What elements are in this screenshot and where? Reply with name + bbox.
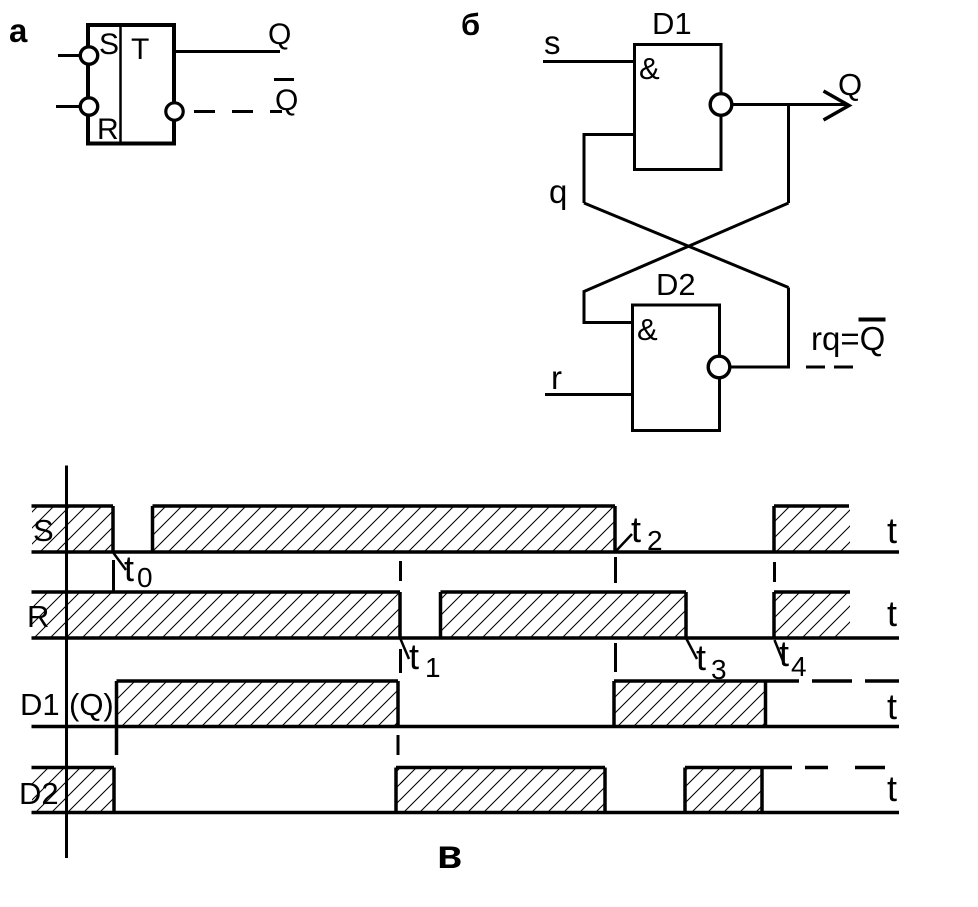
R pulse 2 hatched (441, 592, 687, 638)
marker t1 tick (401, 639, 410, 659)
svg-text:t: t (696, 637, 706, 678)
wire cross diagonal Q node to D2 input (584, 203, 789, 323)
svg-text:&: & (637, 312, 658, 347)
D2 pulse 3 hatched (685, 768, 762, 813)
svg-text:а: а (9, 12, 28, 49)
inversion bubble R (80, 98, 97, 115)
svg-text:t: t (887, 768, 897, 809)
D1 waveform baseline (32, 725, 900, 729)
wire S input (58, 54, 80, 57)
inversion bubble S (80, 47, 97, 64)
D1 pulse 2 hatched (614, 681, 766, 727)
svg-text:4: 4 (791, 651, 807, 682)
marker t2 tick (616, 534, 632, 551)
svg-text:q: q (549, 173, 567, 210)
wire Q-bar dashed (194, 110, 282, 113)
svg-text:rq=Q: rq=Q (811, 320, 885, 357)
svg-text:S: S (33, 513, 54, 548)
R pulse 1 hatched (32, 592, 400, 638)
D2 high level continuation solid then dashed (762, 766, 792, 770)
svg-text:s: s (544, 24, 561, 61)
svg-text:r: r (551, 359, 562, 396)
svg-text:0: 0 (137, 562, 153, 593)
flip-flop divider (119, 25, 122, 144)
wire D2 output dashed continuation (806, 366, 853, 369)
svg-text:t: t (409, 636, 419, 677)
svg-text:1: 1 (425, 652, 441, 683)
S waveform baseline (32, 550, 900, 554)
wire D2 output (730, 366, 790, 369)
dashed vertical t1 line (399, 561, 402, 581)
svg-text:&: & (639, 51, 660, 86)
wire D1 lower input (584, 135, 635, 204)
wire D2 output feedback vertical (787, 288, 790, 368)
wire cross diagonal q to D2 output node (584, 203, 789, 288)
wire s input (543, 60, 636, 63)
S pulse 2 hatched (153, 506, 616, 552)
svg-text:t: t (887, 686, 897, 727)
svg-text:D1: D1 (652, 6, 692, 41)
svg-text:R: R (97, 113, 119, 146)
svg-text:2: 2 (647, 525, 663, 556)
svg-text:Q: Q (275, 84, 298, 117)
svg-text:t: t (124, 548, 134, 589)
arrow Q output (824, 91, 850, 120)
marker t4 tick (775, 640, 784, 661)
svg-text:S: S (99, 28, 119, 61)
dashed vertical t4 line (773, 562, 776, 582)
svg-text:б: б (461, 7, 480, 42)
svg-text:(Q): (Q) (69, 687, 114, 722)
svg-text:D1: D1 (20, 687, 60, 722)
NAND gate D2 box (633, 305, 720, 431)
R waveform baseline (32, 636, 900, 640)
svg-text:t: t (631, 509, 641, 550)
timing axis vertical (65, 466, 68, 859)
svg-text:t: t (887, 510, 897, 551)
D2 pulse 2 hatched (396, 768, 605, 813)
marker t0 tick (114, 553, 127, 570)
D1 pulse 1 hatched (117, 681, 399, 727)
wire Q output (176, 50, 280, 53)
S pulse 3 hatched open right (774, 506, 850, 552)
svg-text:Q: Q (268, 18, 291, 51)
wire R input (56, 105, 80, 108)
svg-text:T: T (131, 33, 149, 66)
svg-text:D2: D2 (656, 267, 696, 302)
marker t3 tick (687, 639, 698, 659)
D2 pulse 1 hatched (32, 768, 114, 813)
svg-text:D2: D2 (19, 776, 59, 811)
flip-flop T box (part a) (88, 25, 174, 144)
svg-text:t: t (887, 593, 897, 634)
inversion bubble Q-bar (166, 103, 183, 120)
D1 high level continuation solid then dashed (766, 679, 800, 683)
inversion bubble D2 output (708, 356, 730, 378)
S pulse 1 hatched (32, 506, 113, 552)
svg-text:t: t (779, 633, 789, 674)
R pulse 3 hatched open right (774, 592, 850, 638)
wire Q feedback vertical (787, 105, 790, 204)
inversion bubble D1 output (710, 94, 732, 116)
svg-text:в: в (437, 831, 462, 877)
wire D1 output (732, 103, 847, 106)
svg-text:R: R (27, 599, 49, 634)
NAND gate D1 box (635, 45, 722, 170)
svg-text:Q: Q (838, 67, 862, 102)
D2 waveform baseline (32, 811, 900, 815)
wire r input (545, 393, 633, 396)
dashed vertical t2 line (614, 557, 617, 583)
